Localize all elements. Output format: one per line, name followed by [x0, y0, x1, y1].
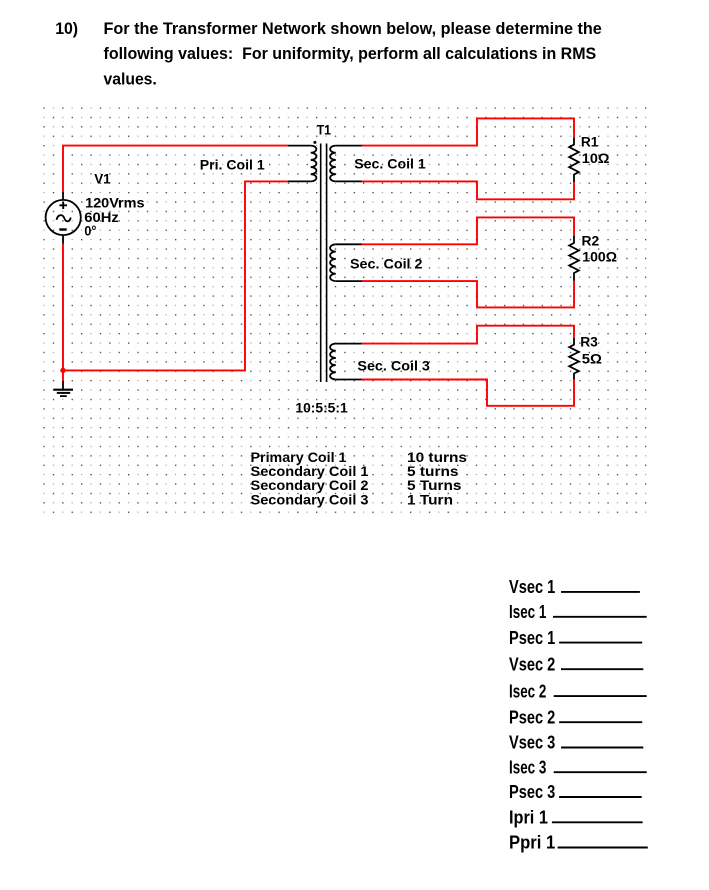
svg-text:Vsec 2: Vsec 2	[509, 653, 555, 674]
resistor R3	[569, 338, 579, 380]
svg-text:Psec 1: Psec 1	[509, 627, 555, 648]
sec coil 3 winding	[330, 344, 336, 380]
wire sec1 top to R1	[361, 118, 574, 145]
svg-text:Pri. Coil 1: Pri. Coil 1	[200, 158, 265, 174]
svg-text:Ppri 1: Ppri 1	[509, 832, 555, 853]
sec coil 2 bottom lead	[336, 280, 362, 282]
sec coil 2 winding	[330, 244, 336, 281]
svg-text:following values: For uniform: following values: For uniformity, perfor…	[104, 44, 597, 63]
sec coil 1 bottom lead	[336, 180, 362, 182]
svg-text:Isec 1: Isec 1	[509, 601, 546, 622]
sec coil 2 top lead	[336, 243, 362, 245]
wire sec2 bottom to R2	[361, 281, 574, 308]
ground bar 1	[53, 389, 73, 391]
svg-text:T1: T1	[317, 123, 331, 139]
svg-text:R3: R3	[580, 334, 598, 350]
source V1 top pin	[62, 192, 64, 200]
sec coil 1 winding	[330, 146, 336, 182]
svg-text:Ipri 1: Ipri 1	[509, 807, 548, 828]
transformer T1 primary coil winding	[311, 146, 317, 182]
junction dot node	[60, 368, 65, 373]
source sine symbol	[57, 215, 71, 221]
svg-text:Sec. Coil 3: Sec. Coil 3	[357, 358, 430, 374]
wire sec3 bottom to R3	[361, 380, 574, 406]
transformer T1 phase dot	[313, 141, 316, 144]
svg-text:10Ω: 10Ω	[582, 151, 610, 167]
transformer T1 primary top lead	[288, 145, 311, 147]
turns table	[251, 450, 468, 508]
ground bar 3	[60, 395, 67, 397]
svg-text:Vsec 3: Vsec 3	[509, 732, 555, 753]
source minus sign	[59, 228, 66, 230]
wire sec2 top to R2	[361, 217, 574, 244]
svg-text:values.: values.	[104, 69, 157, 88]
source V1 circle	[46, 200, 81, 235]
svg-text:For the Transformer Network sh: For the Transformer Network shown below,…	[104, 19, 602, 38]
svg-text:Psec 3: Psec 3	[509, 781, 555, 802]
svg-text:5Ω: 5Ω	[582, 351, 602, 367]
svg-text:10:5:5:1: 10:5:5:1	[295, 400, 347, 416]
ground stub	[62, 381, 64, 389]
ground bar 2	[57, 392, 70, 394]
problem heading text	[55, 19, 602, 89]
wire primary bottom return	[63, 181, 288, 370]
answer blanks	[509, 576, 555, 853]
transformer T1 core line left	[320, 144, 322, 383]
svg-text:Secondary Coil 3: Secondary Coil 3	[251, 492, 369, 508]
svg-text:V1: V1	[94, 172, 111, 188]
resistor R2	[569, 236, 579, 281]
transformer T1 primary bottom lead	[288, 180, 311, 182]
sec coil 3 bottom lead	[336, 379, 362, 381]
source plus sign	[59, 202, 67, 209]
svg-text:1 Turn: 1 Turn	[407, 492, 453, 508]
svg-text:0°: 0°	[84, 224, 96, 240]
svg-text:R2: R2	[582, 234, 600, 250]
wire top run V1 to primary	[63, 146, 288, 192]
transformer T1 core line right	[326, 144, 328, 383]
sec coil 1 top lead	[336, 145, 362, 147]
source V1 bottom pin	[62, 235, 64, 244]
wire V1 bottom to ground	[62, 244, 64, 381]
svg-text:Isec 3: Isec 3	[509, 756, 546, 777]
grid dots background	[43, 107, 646, 517]
svg-text:Psec 2: Psec 2	[509, 706, 555, 727]
sec coil 3 top lead	[336, 343, 362, 345]
svg-text:R1: R1	[581, 134, 599, 150]
svg-text:Sec. Coil 2: Sec. Coil 2	[350, 256, 423, 272]
wire sec1 bottom to R1	[361, 181, 574, 199]
svg-text:10): 10)	[55, 19, 78, 38]
wire sec3 top to R3	[361, 326, 574, 344]
svg-text:100Ω: 100Ω	[582, 250, 617, 266]
svg-text:Sec. Coil 1: Sec. Coil 1	[354, 157, 426, 173]
resistor R1	[569, 138, 579, 183]
svg-text:Isec 2: Isec 2	[509, 680, 546, 701]
svg-text:Vsec 1: Vsec 1	[509, 576, 555, 597]
